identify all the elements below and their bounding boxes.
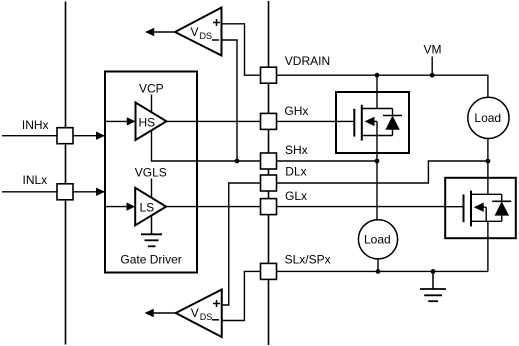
svg-text:Load: Load <box>474 111 501 125</box>
wire INHx arrow into gate driver <box>96 132 105 140</box>
GLx pad <box>261 199 277 215</box>
op-amp VDS bottom <box>176 290 222 338</box>
svg-text:VGLS: VGLS <box>135 166 167 180</box>
left input rail <box>65 2 67 345</box>
wire low FET drain riser <box>487 161 489 193</box>
GHx pad <box>261 113 277 129</box>
wire load bottom to DLx <box>277 161 488 183</box>
wire LS output GLx net <box>166 206 260 208</box>
wire INHx <box>2 135 105 137</box>
svg-text:INLx: INLx <box>23 173 48 187</box>
svg-text:LS: LS <box>140 201 155 215</box>
wire load top bottom lead <box>487 139 489 162</box>
junction dot minus-SHx <box>235 159 240 164</box>
INLx pad <box>57 184 73 200</box>
op-amp VDS top <box>175 8 222 56</box>
wire LS input arrow <box>106 206 127 208</box>
ground power <box>432 271 434 289</box>
wire INLx arrow into gate driver <box>96 188 105 196</box>
wire VM stem <box>431 57 433 76</box>
VDRAIN pad <box>261 67 277 83</box>
wire load bottom lower lead <box>377 259 379 272</box>
svg-text:DS: DS <box>200 31 213 41</box>
wire SLx to VDS bottom minus <box>222 271 261 320</box>
wire VDS top plus input to VDRAIN <box>222 24 261 75</box>
wire GHx net to gate <box>277 120 355 122</box>
wire SHx internal <box>152 131 261 162</box>
pin bus <box>268 1 270 345</box>
svg-text:V: V <box>191 25 199 39</box>
wire high FET source to SHx dot and load <box>376 136 378 220</box>
wire SHx pad to source dot <box>277 160 378 162</box>
junction dot VM <box>430 73 435 78</box>
wire VDS top output arrow <box>154 31 176 33</box>
svg-text:VM: VM <box>424 43 442 57</box>
svg-text:SLx/SPx: SLx/SPx <box>285 253 331 267</box>
load bottom <box>358 220 397 259</box>
junction dot SHx source <box>375 159 380 164</box>
INHx pad <box>57 128 73 144</box>
ground gate driver <box>151 216 153 235</box>
junction dot ground-SLx <box>431 269 436 274</box>
wire VDS bottom output arrow <box>154 312 176 314</box>
svg-text:VCP: VCP <box>139 81 164 95</box>
buffer HS <box>136 103 167 141</box>
gate driver box <box>105 72 197 273</box>
wire GLx net to gate <box>277 206 464 208</box>
wire VDS top minus input to SHx <box>222 40 238 161</box>
wire HS output GHx net <box>166 120 260 122</box>
wire VDRAIN rail <box>277 75 488 97</box>
svg-text:DS: DS <box>200 312 213 322</box>
wire low FET source to SLx <box>487 221 489 271</box>
svg-text:Gate Driver: Gate Driver <box>120 253 181 267</box>
SHx pad <box>261 153 277 169</box>
svg-text:HS: HS <box>139 116 156 130</box>
buffer LS <box>135 188 166 226</box>
wire INLx <box>2 191 105 193</box>
wire VGLS stem <box>151 179 153 198</box>
svg-text:GLx: GLx <box>285 189 307 203</box>
transistor low-side FET <box>445 177 516 238</box>
svg-text:GHx: GHx <box>284 104 308 118</box>
svg-text:INHx: INHx <box>22 118 49 132</box>
svg-text:SHx: SHx <box>285 143 308 157</box>
junction dot high FET drain <box>375 73 380 78</box>
svg-text:V: V <box>191 306 199 320</box>
svg-text:VDRAIN: VDRAIN <box>285 54 330 68</box>
load top <box>468 97 509 138</box>
svg-text:Load: Load <box>364 233 391 247</box>
SLx/SPx pad <box>261 263 277 279</box>
svg-text:DLx: DLx <box>285 165 306 179</box>
transistor high-side FET <box>336 91 409 153</box>
junction dot load-SLx <box>376 269 381 274</box>
wire SLx net <box>277 270 488 272</box>
wire HS input arrow <box>106 120 128 122</box>
wire VCP stem <box>151 95 153 113</box>
wire DLx to VDS bottom plus <box>222 183 261 305</box>
junction dot load-DLx <box>486 159 491 164</box>
wire high FET drain riser <box>376 75 378 108</box>
DLx pad <box>261 175 277 191</box>
